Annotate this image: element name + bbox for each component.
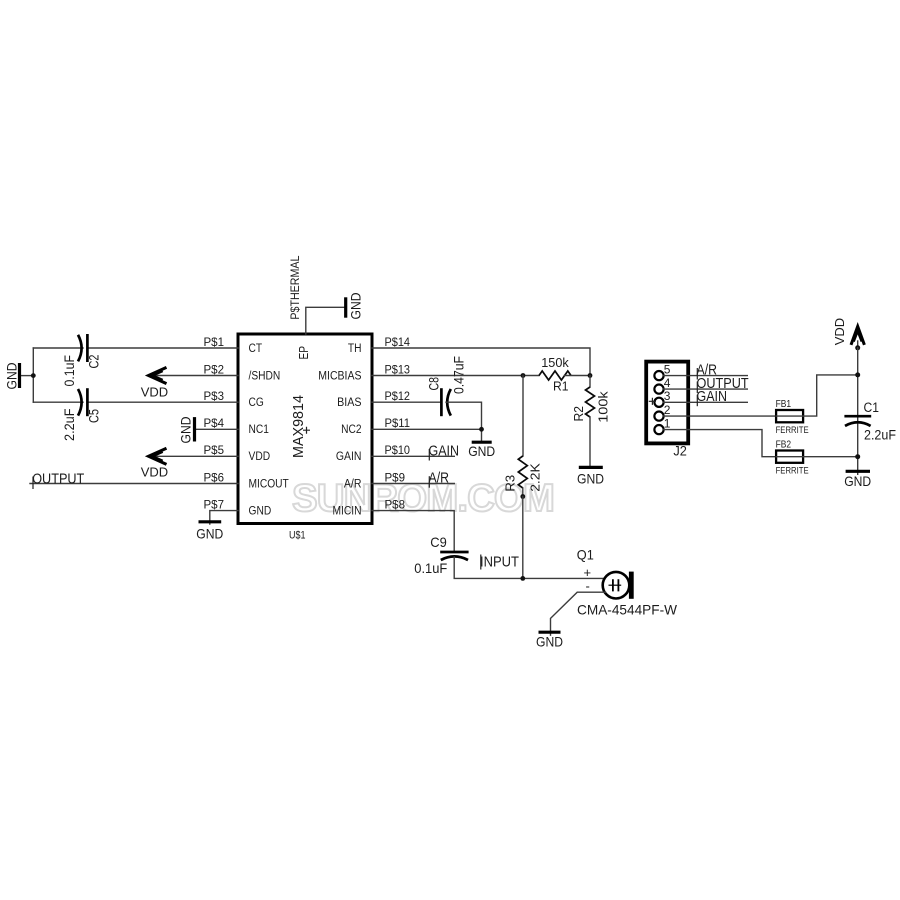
svg-text:3: 3 [664, 389, 671, 403]
wire P$2 to VDD arrow [149, 375, 238, 377]
svg-text:2.2K: 2.2K [527, 463, 542, 492]
supply VDD arrow (P$2) [149, 367, 167, 383]
svg-text:FERRITE: FERRITE [776, 465, 809, 476]
svg-text:OUTPUT: OUTPUT [32, 471, 84, 488]
capacitor C9 [440, 552, 468, 560]
junction C8/P$11 [479, 427, 484, 432]
svg-text:C2: C2 [86, 354, 102, 368]
svg-text:R1: R1 [553, 379, 569, 394]
J2 pin 1 circle [654, 425, 663, 434]
wire P$4 to ground [196, 428, 239, 430]
svg-text:Q1: Q1 [577, 547, 594, 562]
svg-text:0.1uF: 0.1uF [414, 560, 447, 576]
wire J2 pin2 to FB1 [664, 415, 777, 417]
svg-text:C9: C9 [430, 534, 447, 550]
svg-text:P$9: P$9 [385, 470, 406, 484]
svg-text:GAIN: GAIN [429, 443, 460, 460]
svg-text:MICIN: MICIN [333, 503, 362, 517]
svg-text:C1: C1 [864, 400, 880, 415]
svg-text:GAIN: GAIN [336, 449, 362, 463]
svg-text:P$10: P$10 [385, 443, 411, 457]
wire P$13 to R1 [372, 375, 539, 377]
wire P$5 to VDD arrow [149, 455, 238, 457]
svg-text:P$13: P$13 [385, 362, 411, 376]
wire P$3 to C5 [88, 401, 238, 403]
net label tick OUTPUT [32, 477, 34, 490]
svg-text:VDD: VDD [249, 449, 271, 463]
svg-text:VDD: VDD [141, 385, 168, 400]
J2 pin 3 circle [654, 398, 663, 407]
wire mic minus to ground [551, 592, 606, 635]
supply VDD arrow (top right) [851, 326, 864, 347]
wire J2 pin4 OUTPUT net [664, 388, 748, 390]
capacitor C5 [78, 388, 87, 416]
IC U1 MAX9814 body [238, 334, 372, 524]
svg-text:FERRITE: FERRITE [776, 425, 809, 436]
capacitor C2 [78, 334, 87, 362]
J2 pin 4 circle [654, 385, 663, 394]
svg-text:MICOUT: MICOUT [249, 476, 290, 490]
resistor R2 100k [586, 387, 595, 467]
wire EP to ground [306, 307, 345, 334]
svg-text:GND: GND [536, 634, 563, 650]
junction P$13/R3 [521, 373, 526, 378]
svg-text:TH: TH [348, 341, 362, 355]
net label tick OUTPUT (J2) [696, 382, 698, 394]
wire C8 to P$11 node [446, 402, 482, 429]
wire P$14 over to R1 right node [372, 348, 590, 376]
svg-text:P$1: P$1 [204, 335, 225, 349]
svg-text:EP: EP [297, 346, 311, 360]
wire P$12 to C8 [372, 401, 441, 403]
ground bar (C1) [846, 470, 870, 473]
svg-text:4: 4 [664, 376, 671, 390]
wire P$8 down to C9 [372, 511, 454, 552]
svg-text:P$5: P$5 [204, 443, 225, 457]
svg-text:2.2uF: 2.2uF [864, 428, 896, 443]
svg-text:GND: GND [348, 293, 364, 320]
svg-text:2.2uF: 2.2uF [61, 409, 77, 442]
net label tick A/R (J2) [696, 368, 698, 380]
ground bar (P$11) [472, 441, 492, 444]
junction VDD arrow base [855, 345, 860, 350]
ground bar (EP) [344, 297, 347, 317]
svg-text:1: 1 [664, 416, 671, 430]
svg-text:FB2: FB2 [776, 439, 792, 451]
wire FB1 to VDD rail [803, 375, 858, 416]
resistor R1 150k [539, 371, 590, 380]
junction FB2/C1 bottom [855, 454, 860, 459]
svg-text:2: 2 [664, 403, 671, 417]
ferrite bead FB2 [776, 451, 803, 463]
svg-text:GND: GND [577, 471, 604, 487]
svg-text:/SHDN: /SHDN [249, 368, 281, 382]
ground bar (P$7) [199, 520, 222, 523]
svg-text:GND: GND [468, 443, 495, 459]
svg-text:GND: GND [4, 363, 20, 390]
wire P$9 A/R net [372, 483, 454, 485]
wire J2 pin3 GAIN net [664, 401, 748, 403]
svg-text:U$1: U$1 [289, 530, 306, 542]
wire R3 to input node [522, 497, 524, 579]
wire P$10 GAIN net [372, 455, 454, 457]
svg-text:5: 5 [664, 362, 671, 376]
svg-text:0.1uF: 0.1uF [61, 355, 77, 387]
wire FB2 to C1 bottom node [803, 456, 858, 458]
svg-text:INPUT: INPUT [480, 553, 519, 570]
svg-text:R2: R2 [571, 406, 586, 422]
wire rail to left ground [21, 375, 34, 377]
wire J2 pin1 to FB2 [664, 430, 777, 457]
svg-text:P$7: P$7 [204, 497, 225, 511]
ferrite bead FB1 [776, 410, 803, 422]
svg-text:GND: GND [844, 473, 871, 489]
wire J2 pin5 A/R net [664, 375, 748, 377]
svg-text:R3: R3 [502, 475, 517, 492]
svg-text:GAIN: GAIN [697, 388, 728, 405]
svg-text:P$14: P$14 [385, 335, 411, 349]
wire left vertical rail [32, 348, 34, 402]
svg-text:MICBIAS: MICBIAS [318, 368, 361, 382]
junction R3 bottom [520, 494, 525, 499]
junction R1/R2 [588, 373, 593, 378]
svg-text:P$2: P$2 [204, 362, 225, 376]
svg-text:+: + [584, 565, 592, 580]
net label tick GAIN (P$10) [428, 449, 430, 461]
svg-text:A/R: A/R [429, 470, 450, 487]
net label tick GAIN (J2) [696, 395, 698, 407]
capacitor C1 [844, 416, 871, 426]
wire R1 node down to R2 [589, 376, 591, 388]
svg-text:NC2: NC2 [341, 422, 362, 436]
wire P$6 OUTPUT net [30, 483, 238, 485]
svg-text:0.47uF: 0.47uF [450, 356, 466, 394]
svg-text:BIAS: BIAS [337, 395, 361, 409]
ground bar (left) [18, 363, 21, 388]
wire P$1 to C2 [88, 347, 238, 349]
wire P$7 to ground [210, 511, 238, 524]
wire R3 top from junction [522, 376, 524, 457]
svg-text:C8: C8 [426, 377, 442, 391]
svg-text:P$8: P$8 [385, 497, 406, 511]
svg-text:VDD: VDD [832, 318, 847, 345]
wire C9 to mic node [454, 557, 604, 578]
svg-text:NC1: NC1 [249, 422, 270, 436]
ground bar (P$4) [193, 417, 196, 441]
junction FB1/VDD rail [855, 372, 860, 377]
svg-text:100k: 100k [595, 391, 610, 423]
svg-text:CMA-4544PF-W: CMA-4544PF-W [577, 603, 677, 618]
svg-text:-: - [586, 579, 590, 594]
wire P$11 to ground [372, 429, 482, 441]
connector J2 body [646, 362, 688, 444]
svg-text:P$3: P$3 [204, 389, 225, 403]
svg-text:GND: GND [196, 525, 223, 541]
net label tick A/R (P$9) [428, 476, 430, 488]
junction left rail [31, 373, 36, 378]
svg-text:J2: J2 [673, 444, 687, 459]
svg-text:C5: C5 [86, 409, 102, 423]
svg-text:P$THERMAL: P$THERMAL [288, 255, 302, 319]
svg-text:P$12: P$12 [385, 389, 411, 403]
svg-text:FB1: FB1 [776, 398, 792, 410]
svg-text:VDD: VDD [141, 465, 168, 480]
microphone Q1 CMA-4544PF-W [603, 572, 634, 599]
svg-text:CG: CG [249, 395, 264, 409]
net label tick INPUT [480, 555, 482, 570]
svg-text:P$11: P$11 [385, 416, 411, 430]
J2 pin 2 circle [654, 412, 663, 421]
ground bar (mic) [539, 631, 561, 634]
resistor R3 2.2K [518, 456, 527, 497]
junction input node [520, 576, 525, 581]
svg-text:GND: GND [178, 417, 194, 444]
supply VDD arrow (P$5) [149, 448, 167, 464]
J2 pin 5 circle [654, 371, 663, 380]
svg-text:MAX9814: MAX9814 [290, 395, 307, 458]
svg-text:CT: CT [249, 341, 263, 355]
capacitor C8 [441, 388, 450, 416]
wire C2 to left rail [33, 347, 83, 349]
svg-text:GND: GND [249, 503, 272, 517]
ground bar (R2) [579, 466, 603, 469]
wire C5 to left rail [33, 401, 83, 403]
svg-text:P$6: P$6 [204, 470, 225, 484]
wire VDD rail down to ground [857, 348, 859, 475]
J2 origin cross [649, 398, 656, 405]
svg-text:P$4: P$4 [204, 416, 225, 430]
svg-text:150k: 150k [541, 355, 569, 370]
svg-text:A/R: A/R [344, 476, 362, 490]
